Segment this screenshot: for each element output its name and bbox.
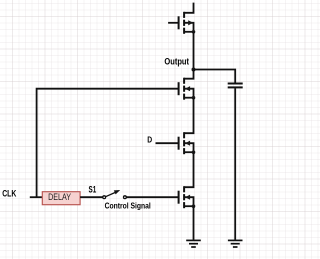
M1 source-body junction dot — [192, 30, 196, 34]
ground (right, below capacitor) — [228, 240, 243, 247]
transistor M2 (output NMOS) — [179, 78, 196, 100]
wire M1 drain stub to top — [184, 3, 193, 13]
switch S1 — [103, 190, 127, 199]
wire CLK to delay / left rail tee — [30, 196, 43, 198]
wire switch to M4 gate — [126, 196, 178, 198]
M3 source-body junction dot — [192, 150, 196, 154]
delay block DELAY — [42, 192, 80, 205]
ground (below M4) — [186, 240, 201, 247]
wire Output node to capacitor — [194, 70, 236, 83]
svg-text:D: D — [147, 134, 152, 144]
M3 gate bar — [178, 137, 180, 150]
svg-text:S1: S1 — [89, 184, 97, 194]
M3 gate lead from D — [156, 142, 179, 144]
M2 source lead — [184, 97, 193, 99]
M1 body lead with right arrow — [185, 23, 194, 32]
M4 gate bar — [178, 191, 180, 204]
M1 source lead — [184, 31, 193, 33]
wire Output node down to M2 drain — [184, 70, 193, 79]
transistor M3 (D input NMOS) — [156, 132, 196, 154]
capacitor C1 — [228, 84, 243, 88]
svg-text:Control Signal: Control Signal — [105, 202, 151, 211]
wire M4 source to ground — [193, 206, 195, 240]
wire M1 source to Output node — [193, 32, 195, 70]
M2 body lead with left arrow — [185, 89, 194, 98]
M4 channel segments — [183, 186, 185, 192]
M1 gate bar — [178, 16, 180, 29]
wire left rail up to M2 gate — [37, 89, 179, 198]
M1 gate lead stub — [168, 22, 179, 24]
M3 body lead with left arrow — [185, 143, 194, 152]
M2 channel segments — [183, 78, 185, 84]
M2 source-body junction dot — [192, 96, 196, 100]
M4 body lead with left arrow — [185, 197, 194, 206]
M4 source-body junction dot — [192, 204, 196, 208]
svg-text:DELAY: DELAY — [48, 192, 71, 202]
transistor M4 (control NMOS) — [179, 186, 196, 208]
M3 channel segments — [183, 132, 185, 138]
wire M3 source to M4 drain — [184, 152, 193, 187]
transistor M1 (top NMOS, body arrow right) — [168, 3, 195, 34]
wire delay to switch S1 — [80, 196, 103, 198]
M4 source lead — [184, 205, 193, 207]
wire capacitor to ground — [234, 88, 236, 240]
M1 channel segments — [183, 12, 185, 18]
M2 gate bar — [178, 82, 180, 95]
svg-text:Output: Output — [164, 55, 189, 66]
svg-text:CLK: CLK — [2, 189, 17, 199]
M3 source lead — [184, 151, 193, 153]
wire M2 source to M3 drain — [184, 98, 193, 134]
node Output junction dot — [192, 68, 196, 72]
